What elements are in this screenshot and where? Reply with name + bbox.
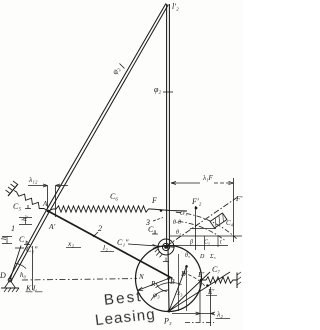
svg-text:C₅: C₅ <box>204 240 210 246</box>
svg-text:C₁: C₁ <box>19 235 27 244</box>
svg-text:1: 1 <box>11 224 15 233</box>
svg-text:θ₅: θ₅ <box>185 253 190 259</box>
node F <box>160 209 163 212</box>
big circle R about B <box>136 246 202 312</box>
svg-text:F: F <box>151 196 157 205</box>
right block verticals <box>205 236 219 250</box>
arc trajectory outer <box>176 212 237 238</box>
svg-text:D: D <box>199 254 205 260</box>
anchor wall top-left <box>8 184 18 196</box>
svg-text:C₆: C₆ <box>110 192 118 201</box>
svg-text:h: h <box>0 236 8 240</box>
node F2' <box>195 207 198 210</box>
svg-text:C₁″: C₁″ <box>26 245 38 254</box>
svg-text:x₂: x₂ <box>67 239 74 248</box>
node B <box>167 277 170 280</box>
spring C5 <box>14 191 47 211</box>
tick below joint <box>163 258 169 262</box>
watermark Leasing <box>94 306 156 329</box>
svg-text:N: N <box>138 273 144 281</box>
dash-dot link C4 direction <box>167 198 238 247</box>
spring C7 <box>201 277 237 283</box>
svg-text:K L: K L <box>25 284 37 293</box>
spring C6 <box>48 206 151 212</box>
slider C4 <box>210 213 227 228</box>
svg-text:C′₅: C′₅ <box>180 211 187 217</box>
svg-text:θ₁: θ₁ <box>176 230 181 236</box>
node P3 <box>168 310 171 313</box>
svg-text:Σ₅: Σ₅ <box>209 254 216 260</box>
svg-text:P₃: P₃ <box>163 317 172 326</box>
dimension h <box>2 237 12 244</box>
arc trajectory inner <box>178 222 224 241</box>
svg-text:C₅: C₅ <box>13 202 21 211</box>
coupler heavy line A to B <box>48 211 173 279</box>
svg-text:β: β <box>189 240 193 246</box>
svg-text:φ₃: φ₃ <box>153 290 160 299</box>
node A <box>47 210 50 213</box>
node E'' <box>206 284 209 287</box>
svg-text:A: A <box>42 200 48 208</box>
tick C3 <box>152 231 158 235</box>
radius arrow R <box>138 279 169 291</box>
svg-text:A′: A′ <box>48 222 56 231</box>
vertical ext B' <box>186 268 188 311</box>
right block horizontals <box>190 228 216 230</box>
svg-text:θ-θ: θ-θ <box>173 220 181 226</box>
svg-text:B: B <box>170 277 175 286</box>
wire horizontal to F <box>151 209 187 211</box>
tick on vertical <box>163 91 173 93</box>
centerline D to B dash <box>22 279 137 280</box>
wire vertical joint to P3 <box>168 246 169 311</box>
dimension h1 <box>19 218 32 225</box>
angle arc at D <box>16 264 27 269</box>
svg-text:R: R <box>150 280 156 288</box>
link 2 double line A to apex <box>47 3 169 211</box>
svg-text:λ₁₂: λ₁₂ <box>28 175 38 184</box>
node B' <box>185 265 188 268</box>
svg-text:l′₂: l′₂ <box>172 2 179 11</box>
tick C5 <box>25 205 31 209</box>
wall bracket right <box>236 273 238 289</box>
joint C3 pivot <box>158 239 174 255</box>
link 3 double vertical F to apex <box>167 4 170 246</box>
angle arc at B <box>156 284 167 292</box>
svg-text:h₀: h₀ <box>20 271 27 279</box>
svg-text:λ₁F: λ₁F <box>202 174 213 182</box>
svg-text:C₄: C₄ <box>226 219 234 227</box>
svg-text:h₁: h₁ <box>21 215 29 221</box>
wire vertical C1'' to KL <box>32 246 34 290</box>
svg-text:l₂: l₂ <box>103 243 108 252</box>
tick on link 2 <box>120 64 125 69</box>
svg-text:F′₂: F′₂ <box>191 197 202 206</box>
node E' <box>200 279 203 282</box>
link 1 double line D to A <box>9 210 50 281</box>
svg-text:F″: F″ <box>235 194 243 203</box>
svg-text:C₁″: C₁″ <box>117 238 129 247</box>
vertical ext x3 <box>178 254 180 311</box>
svg-text:C₇: C₇ <box>212 265 220 274</box>
svg-text:D: D <box>0 271 6 280</box>
svg-text:E′: E′ <box>197 270 205 279</box>
svg-text:2: 2 <box>98 224 102 233</box>
lines from P3 fan <box>169 265 187 311</box>
pivot D ground <box>8 278 12 282</box>
wire F2' vertical <box>195 206 197 250</box>
watermark Best <box>103 288 143 309</box>
tick C1 <box>24 241 30 245</box>
crank second position D to A'' <box>10 246 21 281</box>
dimension lambda2 <box>200 282 211 326</box>
svg-text:φ₂: φ₂ <box>154 85 161 94</box>
svg-text:λ₂: λ₂ <box>216 310 223 319</box>
arcs at P3 <box>151 290 169 301</box>
